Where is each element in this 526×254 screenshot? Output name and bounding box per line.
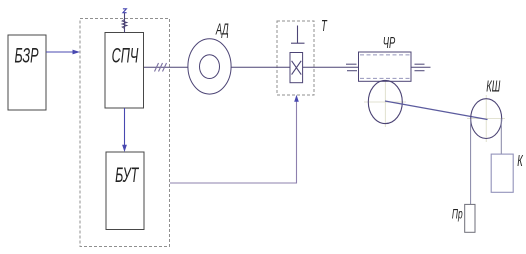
svg-text:БУТ: БУТ	[115, 163, 139, 187]
svg-text:АД: АД	[215, 20, 229, 38]
svg-text:Т: Т	[321, 16, 328, 34]
svg-text:ЧР: ЧР	[383, 33, 396, 51]
svg-text:СПЧ: СПЧ	[112, 43, 139, 67]
svg-text:БЗР: БЗР	[14, 43, 38, 67]
svg-text:КШ: КШ	[486, 77, 500, 95]
svg-text:Пр: Пр	[452, 207, 463, 222]
svg-text:К: К	[517, 151, 524, 169]
